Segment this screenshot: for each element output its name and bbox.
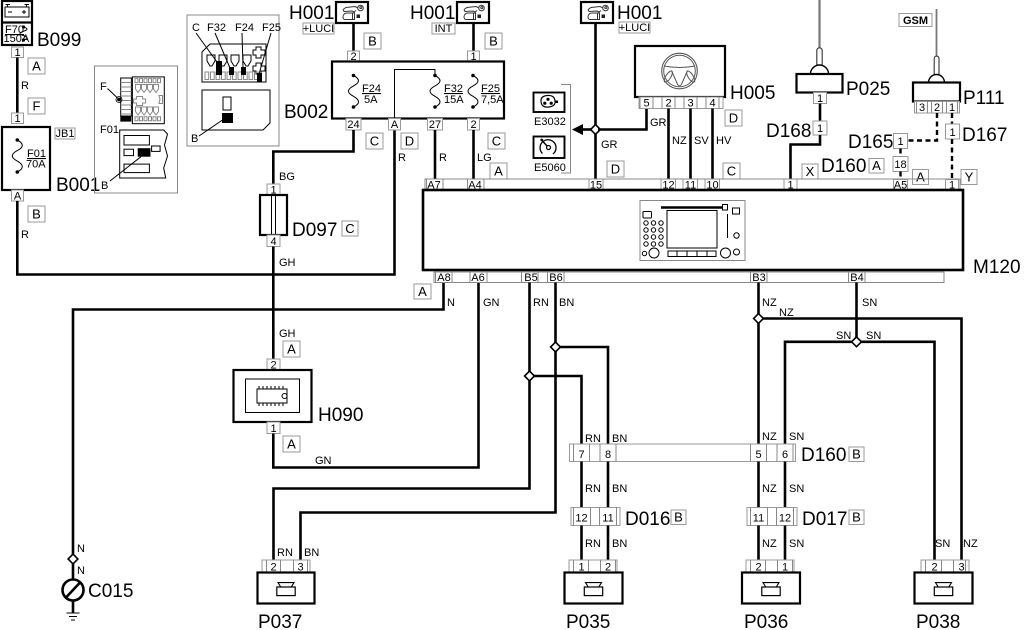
wire NZ D160-5 to D017-11 — [757, 462, 760, 508]
svg-text:B: B — [674, 510, 683, 525]
svg-text:Y: Y — [965, 170, 974, 185]
svg-text:A: A — [418, 284, 427, 299]
svg-text:E3032: E3032 — [534, 116, 566, 128]
svg-text:SN: SN — [789, 538, 804, 550]
wire NZ D017 to P036 — [757, 526, 760, 561]
svg-text:N: N — [447, 297, 455, 309]
code box C — [366, 133, 383, 149]
electronic unit E5060 — [534, 137, 566, 175]
svg-text:F: F — [33, 99, 41, 114]
pin 27 B002 — [428, 119, 443, 132]
dashed wire P111 pin1 to D167 — [951, 113, 953, 124]
svg-text:BN: BN — [304, 547, 319, 559]
svg-text:X: X — [806, 164, 815, 179]
internal link to pin A — [395, 70, 436, 119]
svg-text:N: N — [77, 543, 85, 555]
wire SN D017 to P036 — [784, 526, 787, 561]
svg-text:BN: BN — [612, 433, 627, 445]
svg-text:B: B — [489, 34, 498, 49]
svg-text:HV: HV — [716, 135, 732, 147]
svg-text:2: 2 — [934, 102, 940, 114]
wire H001 INT to B002 pin 1 — [472, 23, 475, 51]
svg-text:D165: D165 — [848, 132, 893, 153]
svg-text:D017: D017 — [802, 509, 847, 530]
dashed link D165 to D160 pin18 — [899, 149, 901, 157]
M120 bottom pin strip — [434, 272, 944, 284]
svg-text:12: 12 — [575, 513, 587, 525]
svg-text:1: 1 — [14, 113, 20, 125]
code box C — [488, 133, 505, 149]
speaker P037 — [258, 560, 315, 604]
code box D — [725, 110, 742, 126]
svg-text:E5060: E5060 — [534, 162, 566, 174]
svg-text:B: B — [101, 180, 108, 192]
svg-text:F25: F25 — [262, 22, 281, 34]
pin 4 D097 — [267, 235, 280, 248]
svg-text:A: A — [916, 170, 925, 185]
amplifier H090 — [234, 370, 312, 422]
wire BN D016 to P035 — [607, 526, 610, 561]
svg-text:SN: SN — [789, 431, 804, 443]
svg-text:LG: LG — [477, 152, 492, 164]
svg-text:1: 1 — [949, 127, 955, 139]
svg-text:NZ: NZ — [762, 297, 777, 309]
code box B — [485, 33, 502, 49]
connector D017 B — [747, 508, 797, 526]
svg-text:D: D — [405, 134, 414, 149]
ignition switch H001 INT — [410, 2, 489, 35]
pin 1 P025 — [814, 93, 827, 106]
B002 location box — [187, 15, 281, 146]
fuse F24 5A — [349, 74, 381, 109]
code box B — [849, 447, 864, 462]
svg-text:SN: SN — [866, 330, 881, 342]
svg-text:B6: B6 — [549, 272, 562, 284]
pin 1 D097 — [267, 184, 280, 197]
svg-text:RN: RN — [533, 297, 549, 309]
svg-text:B: B — [32, 207, 41, 222]
dashed wire P111 pin2 to D165 — [908, 113, 938, 141]
svg-text:GN: GN — [315, 455, 332, 467]
svg-text:C: C — [192, 22, 200, 34]
svg-text:5A: 5A — [364, 94, 378, 106]
wire GR H005 pin5 to splice — [598, 109, 647, 130]
svg-text:SN: SN — [935, 538, 950, 550]
svg-text:A: A — [494, 164, 503, 179]
svg-text:SV: SV — [694, 135, 709, 147]
svg-text:3: 3 — [687, 98, 693, 110]
svg-text:5: 5 — [643, 98, 649, 110]
svg-text:3: 3 — [919, 102, 925, 114]
wire H001 to M120 pin15 with splice — [594, 23, 597, 179]
svg-text:JB1: JB1 — [56, 128, 75, 140]
svg-text:SN: SN — [789, 483, 804, 495]
svg-text:15A: 15A — [444, 94, 464, 106]
svg-text:5: 5 — [755, 449, 761, 461]
M120 top pin strip — [425, 179, 960, 192]
svg-text:B3: B3 — [752, 272, 765, 284]
GSM label — [899, 14, 932, 28]
splice diamond GR — [591, 125, 601, 135]
svg-text:INT: INT — [435, 23, 453, 35]
svg-text:B001: B001 — [56, 175, 100, 196]
pin 1 M120 Y — [946, 180, 959, 192]
svg-text:7,5A: 7,5A — [481, 94, 504, 106]
svg-text:R: R — [398, 152, 406, 164]
svg-text:11: 11 — [753, 513, 764, 525]
wire R B099 to B001 — [16, 58, 19, 114]
code box X — [802, 164, 818, 179]
label D160 A — [821, 156, 884, 177]
svg-text:SN: SN — [836, 330, 851, 342]
wire GN H090 pin1 to M120 A6 — [273, 283, 478, 468]
radio M120 — [423, 190, 963, 270]
svg-text:NZ: NZ — [762, 538, 777, 550]
wire BN M120-B6 down — [301, 283, 556, 561]
svg-text:NZ: NZ — [672, 135, 687, 147]
svg-text:C: C — [370, 134, 379, 149]
svg-text:27: 27 — [429, 119, 441, 131]
radio icon — [640, 201, 745, 261]
svg-text:C: C — [345, 221, 354, 236]
wire RN D160-7 to D016-12 — [580, 462, 583, 508]
branch SN to P038 pin2 — [861, 342, 935, 560]
code box B — [849, 510, 864, 525]
svg-text:A8: A8 — [437, 272, 450, 284]
svg-text:1: 1 — [897, 136, 903, 148]
svg-text:A: A — [14, 191, 22, 203]
svg-text:N: N — [77, 565, 85, 577]
code box A — [283, 436, 300, 452]
svg-text:P111: P111 — [963, 88, 1005, 109]
svg-text:GSM: GSM — [903, 15, 928, 27]
connector D097 — [260, 195, 287, 235]
svg-text:1: 1 — [817, 123, 823, 135]
svg-text:F: F — [100, 81, 107, 93]
svg-text:BN: BN — [612, 538, 627, 550]
fuse F70 150A — [4, 24, 30, 45]
svg-text:7: 7 — [578, 449, 584, 461]
label JB1 — [55, 128, 75, 140]
svg-text:8: 8 — [605, 449, 611, 461]
code box C — [342, 221, 358, 236]
pin A5 M120 — [894, 180, 908, 192]
pin 2 B002 bottom — [468, 119, 480, 132]
splice SN — [852, 337, 862, 347]
svg-text:F01: F01 — [100, 124, 119, 136]
svg-text:BG: BG — [279, 171, 295, 183]
code box B — [28, 206, 45, 222]
svg-text:R: R — [21, 229, 29, 241]
pin 24 B002 — [346, 119, 361, 132]
svg-text:R: R — [439, 152, 447, 164]
speaker P036 — [742, 560, 800, 604]
svg-text:D: D — [729, 111, 738, 126]
pins 12 11 10 M120 — [661, 179, 720, 192]
svg-text:R: R — [21, 80, 29, 92]
svg-text:H001: H001 — [410, 3, 455, 24]
wire RN D016 to P035 — [580, 526, 583, 561]
pin 15 M120 — [589, 179, 603, 192]
svg-text:D: D — [611, 162, 620, 177]
ground point C015 — [63, 580, 84, 621]
svg-text:H005: H005 — [730, 83, 775, 104]
svg-text:11: 11 — [602, 513, 613, 525]
speaker P035 — [565, 560, 623, 604]
electronic unit E3032 — [534, 93, 566, 129]
svg-text:4: 4 — [709, 98, 715, 110]
svg-text:70A: 70A — [26, 159, 46, 171]
arrow to other circuits — [572, 124, 596, 135]
pin A B001 — [12, 190, 24, 203]
svg-text:BN: BN — [559, 297, 574, 309]
antenna P111 — [913, 9, 960, 102]
svg-text:D160: D160 — [821, 156, 866, 177]
wire D168 to M120 pin1 — [791, 135, 821, 179]
wire SV H005 to M120 pin11 — [689, 109, 692, 180]
connector D016 B — [571, 508, 620, 526]
pin 1 B099 — [12, 47, 24, 59]
svg-text:24: 24 — [347, 119, 359, 131]
wire NZ M120-B3 down — [757, 283, 760, 445]
svg-text:P035: P035 — [566, 612, 610, 630]
pin 1 D167 — [946, 124, 960, 139]
speaker P038 — [915, 560, 973, 604]
pin 1 B002 — [468, 51, 480, 63]
code box A — [283, 341, 300, 357]
wire BG B002 pin24 to D097 — [273, 130, 353, 184]
svg-text:B099: B099 — [37, 30, 81, 51]
svg-text:A6: A6 — [471, 272, 484, 284]
wire BN D160-8 to D016-11 — [607, 462, 610, 508]
svg-text:RN: RN — [277, 547, 293, 559]
wire RN M120-B5 down — [274, 283, 530, 561]
svg-text:B: B — [852, 510, 861, 525]
svg-text:M120: M120 — [973, 257, 1021, 278]
battery B099 — [2, 1, 32, 45]
branch NZ to P038 pin3 — [763, 319, 962, 561]
svg-text:P038: P038 — [916, 612, 960, 630]
svg-text:D016: D016 — [625, 509, 670, 530]
wire R B002 pin27 to M120 A7 — [434, 130, 437, 179]
svg-text:GH: GH — [279, 328, 296, 340]
pin strip P111 3 2 1 — [915, 102, 960, 115]
wire N M120-A8 to C015 — [73, 283, 444, 581]
wire SN D160-6 to D017-12 — [784, 462, 787, 508]
antenna P025 — [797, 0, 843, 93]
svg-text:B5: B5 — [524, 272, 537, 284]
fuse F32 15A — [430, 74, 464, 109]
svg-text:+LUCI: +LUCI — [619, 22, 651, 34]
splice BN — [551, 342, 561, 352]
svg-text:2: 2 — [470, 119, 476, 131]
svg-text:B: B — [852, 447, 861, 462]
code box D — [607, 161, 624, 177]
svg-text:P036: P036 — [744, 612, 788, 630]
svg-text:B: B — [191, 133, 198, 145]
svg-text:D160: D160 — [801, 445, 846, 466]
branch BN to D160 pin8 — [560, 347, 608, 444]
pin 1 D165 — [894, 134, 908, 149]
svg-text:H001: H001 — [289, 3, 334, 24]
branch SN to D160 pin6 — [785, 342, 852, 444]
branch RN to D160 pin7 — [534, 376, 582, 444]
svg-text:RN: RN — [585, 483, 601, 495]
wire GH D097 to H090 pin2 — [272, 247, 275, 360]
pin 1 M120 X — [784, 179, 797, 192]
code box A — [28, 58, 45, 74]
svg-text:A: A — [32, 59, 41, 74]
pin 1 D168 — [813, 121, 827, 135]
B001 location box — [95, 66, 178, 193]
wire P025 to D168 — [819, 104, 822, 122]
pin 2 B002 — [348, 51, 360, 63]
code box A — [490, 163, 507, 179]
svg-text:F24: F24 — [235, 22, 254, 34]
svg-text:B4: B4 — [850, 272, 863, 284]
svg-text:6: 6 — [782, 449, 788, 461]
svg-text:18: 18 — [894, 159, 906, 171]
svg-text:1: 1 — [817, 93, 823, 105]
pin 2 H090 — [267, 359, 280, 372]
pin 18 D160 — [893, 157, 908, 172]
pin A B002 — [389, 119, 401, 132]
pin 1 H090 — [267, 422, 280, 435]
svg-text:GR: GR — [650, 117, 667, 129]
fusebox B002 — [284, 62, 504, 124]
svg-text:SN: SN — [862, 297, 877, 309]
svg-text:NZ: NZ — [779, 307, 794, 319]
svg-text:1: 1 — [949, 102, 955, 114]
ignition switch H001 +LUCI right — [581, 2, 662, 34]
splice NZ — [754, 314, 764, 324]
svg-text:A: A — [391, 119, 399, 131]
dashed wire D167 to M120 — [951, 139, 953, 180]
code box B — [364, 33, 381, 49]
svg-text:A: A — [872, 158, 881, 173]
svg-text:NZ: NZ — [762, 431, 777, 443]
svg-text:A: A — [287, 342, 296, 357]
ground splice N — [68, 543, 85, 577]
pin strip H005 — [639, 97, 723, 110]
maxi-fuse box B001 — [2, 127, 50, 190]
code box D — [401, 133, 418, 149]
wire H001 to B002 pin 2 — [352, 23, 355, 51]
pin 1 B001 top — [12, 113, 24, 125]
svg-text:1: 1 — [270, 423, 276, 435]
svg-text:H001: H001 — [617, 3, 662, 24]
svg-text:D097: D097 — [292, 220, 337, 241]
svg-text:C015: C015 — [88, 581, 133, 602]
code box Y — [961, 170, 977, 185]
wire LG B002 pin2 to M120 A4 — [472, 130, 475, 179]
svg-text:C: C — [727, 164, 736, 179]
svg-text:P037: P037 — [258, 612, 302, 630]
svg-text:BN: BN — [612, 483, 627, 495]
code box A — [414, 284, 431, 299]
wire NZ H005 to M120 pin12 — [667, 109, 670, 180]
code box B — [671, 510, 686, 525]
ignition switch H001 +LUCI left — [289, 2, 368, 35]
wire R B001 to B002 pin A — [17, 131, 394, 275]
bracket for E units — [561, 85, 571, 174]
svg-text:C: C — [492, 134, 501, 149]
svg-text:H090: H090 — [318, 405, 363, 426]
splice RN — [525, 371, 535, 381]
svg-text:F32: F32 — [207, 22, 226, 34]
svg-text:P025: P025 — [846, 79, 890, 100]
svg-text:B: B — [368, 34, 377, 49]
svg-text:12: 12 — [779, 513, 791, 525]
svg-text:+LUCI: +LUCI — [303, 23, 335, 35]
svg-text:RN: RN — [585, 538, 601, 550]
wire SN M120-B4 down — [855, 283, 858, 342]
svg-text:NZ: NZ — [762, 483, 777, 495]
svg-text:1: 1 — [14, 47, 20, 59]
svg-text:2: 2 — [665, 98, 671, 110]
svg-text:GR: GR — [601, 139, 618, 151]
connector strip D160 B — [570, 444, 796, 462]
steering wheel unit H005 — [635, 46, 725, 97]
svg-text:GN: GN — [483, 297, 500, 309]
fuse F25 7,5A — [468, 74, 504, 109]
code box C — [723, 163, 740, 179]
wire HV H005 to M120 pin10 — [711, 109, 714, 180]
svg-text:GH: GH — [279, 257, 296, 269]
dashed link D160-18 to A5 — [899, 172, 901, 180]
svg-text:NZ: NZ — [963, 538, 978, 550]
svg-text:A: A — [287, 437, 296, 452]
svg-text:4: 4 — [270, 236, 276, 248]
svg-text:RN: RN — [585, 433, 601, 445]
svg-text:B002: B002 — [284, 102, 328, 123]
svg-text:D168: D168 — [766, 121, 811, 142]
code box A — [913, 170, 929, 185]
svg-text:D167: D167 — [962, 125, 1007, 146]
code box F — [28, 98, 45, 114]
